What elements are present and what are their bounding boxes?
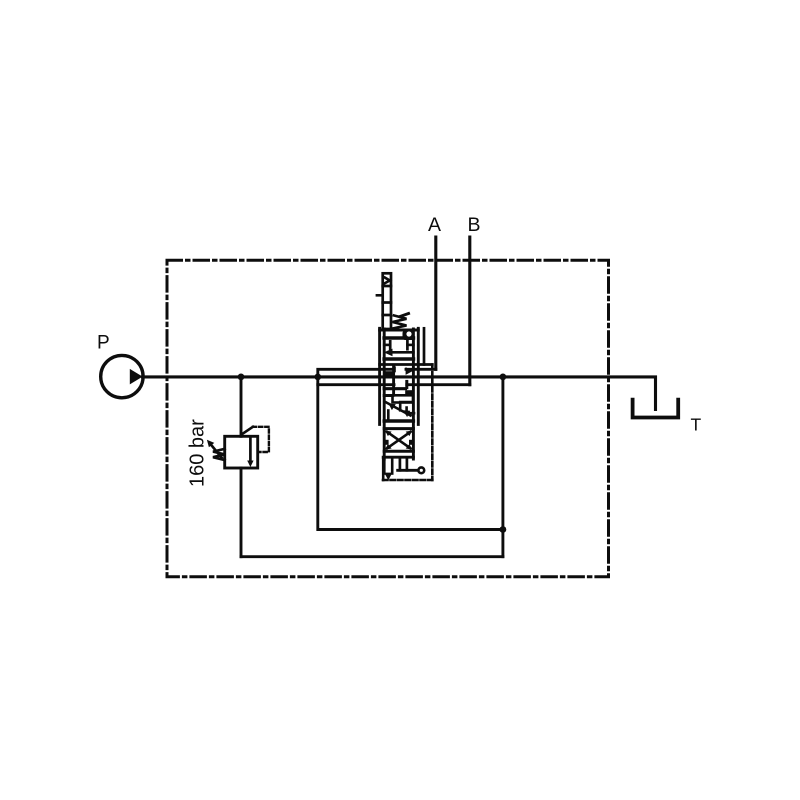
valve DV1 row1 left T xyxy=(384,344,390,347)
relief valve RV1 adjust arrow xyxy=(210,444,222,458)
valve DV1 dashed envelope xyxy=(431,365,434,481)
wire A port line xyxy=(434,237,437,369)
ladder rung 1 xyxy=(383,285,391,288)
valve DV1 row2 left block xyxy=(385,371,394,375)
svg-text:160 bar: 160 bar xyxy=(187,419,209,487)
wire upper parallel line to A xyxy=(318,369,391,377)
valve DV1 ladder channel xyxy=(383,273,391,329)
valve DV1 row2 center bar xyxy=(392,366,395,395)
wire main P line xyxy=(143,377,656,410)
valve DV1 row1 right T xyxy=(407,344,413,347)
valve DV1 separator band 3 xyxy=(384,427,413,430)
node P-AB junction xyxy=(314,374,321,381)
node gallery junction xyxy=(500,526,507,533)
ladder rung 2 xyxy=(383,301,391,304)
wire relief valve drain xyxy=(240,468,243,557)
relief valve RV1 internal arrow xyxy=(249,438,252,461)
valve DV1 right lower block xyxy=(405,390,413,395)
X arrowheads xyxy=(385,431,392,437)
wire B port line xyxy=(468,237,471,385)
enclosure dash-dot border xyxy=(167,260,609,576)
relief valve RV1 body xyxy=(225,436,258,468)
valve DV1 X position square diag 1 xyxy=(387,432,411,449)
wire right drop from P line to gallery xyxy=(501,377,504,557)
pump P circle xyxy=(101,355,143,397)
valve DV1 return spring xyxy=(393,316,407,329)
wire relief valve inlet xyxy=(240,377,243,436)
svg-text:P: P xyxy=(97,333,110,354)
valve DV1 separator band 2 xyxy=(384,357,413,361)
valve DV1 band above port rect xyxy=(384,394,392,397)
svg-text:B: B xyxy=(468,214,481,236)
valve DV1 partial band below B xyxy=(384,387,405,390)
X side marks xyxy=(384,440,389,445)
node P-relief junction xyxy=(238,374,245,381)
valve DV1 lever xyxy=(398,469,418,472)
relief valve RV1 pilot line xyxy=(242,427,253,434)
valve DV1 row1 arrow xyxy=(391,351,414,354)
valve DV1 separator band 1 xyxy=(384,336,413,340)
valve DV1 row2 arrowhead on A channel xyxy=(389,366,396,372)
valve DV1 left bar mark xyxy=(387,411,390,420)
valve DV1 separator band 4 xyxy=(384,450,413,453)
wire tank gallery rectangle left/bottom xyxy=(318,385,503,530)
valve DV1 right inner plate line xyxy=(423,328,426,364)
valve DV1 envelope top line xyxy=(380,363,433,366)
valve DV1 left rail xyxy=(378,328,381,424)
valve DV1 gamma mark 2 xyxy=(407,408,414,414)
valve DV1 right rail xyxy=(417,328,420,424)
wire lower parallel line to B xyxy=(318,377,394,385)
wire relief return bottom line xyxy=(241,555,503,558)
valve DV1 row2 right upper arrowhead xyxy=(406,367,413,375)
valve DV1 check ball blob xyxy=(403,331,415,341)
valve DV1 band partial xyxy=(384,419,413,422)
svg-text:T: T xyxy=(691,415,702,435)
valve DV1 tank channel with down arrow xyxy=(383,459,386,474)
pump flow triangle xyxy=(130,369,143,385)
valve DV1 small port rect xyxy=(393,395,414,402)
valve DV1 row2 right lower bar xyxy=(405,381,408,387)
node P-T junction xyxy=(500,374,507,381)
valve DV1 lever link bars xyxy=(399,459,402,470)
tank T symbol xyxy=(633,400,679,418)
svg-text:A: A xyxy=(428,214,441,236)
relief valve RV1 spring xyxy=(213,449,225,460)
valve DV1 X position square diag 2 xyxy=(387,432,411,449)
ladder side tick xyxy=(377,294,383,297)
valve DV1 diagonal position square xyxy=(385,402,411,416)
valve DV1 gamma mark 1 xyxy=(400,402,412,410)
valve DV1 body outline xyxy=(380,329,419,332)
ladder rung 3 xyxy=(383,314,391,317)
valve DV1 separator band 5 xyxy=(383,456,413,459)
ladder top glyph xyxy=(384,278,390,284)
